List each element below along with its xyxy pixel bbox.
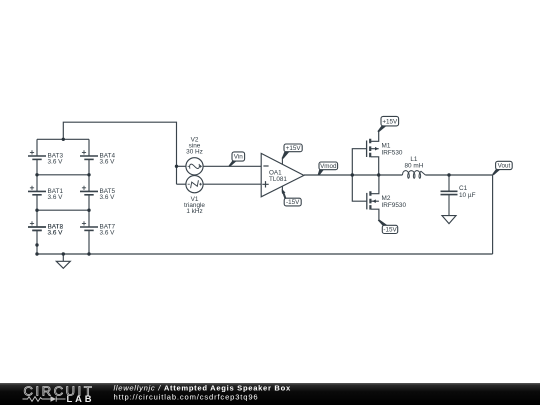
svg-text:Vmod: Vmod <box>320 163 337 170</box>
capacitor C1 10 uF <box>441 175 476 216</box>
op-amp +15V supply flag <box>282 144 303 165</box>
inductor L1 80 mH <box>402 156 425 178</box>
node top rail / feed junction <box>62 138 65 141</box>
node left column stub <box>35 243 38 246</box>
svg-text:3.6 V: 3.6 V <box>100 194 116 201</box>
node mid rail 1 left <box>35 173 38 176</box>
svg-text:3.6 V: 3.6 V <box>48 159 64 166</box>
ground symbol at C1 <box>442 216 456 224</box>
voltage source V1 triangle 1 kHz <box>184 176 205 215</box>
svg-text:10 µF: 10 µF <box>459 192 476 199</box>
wire ground stub at battery bank <box>62 254 64 261</box>
wire MOSFET gate bus vertical <box>352 149 367 202</box>
svg-text:C1: C1 <box>459 185 468 192</box>
battery BAT5 <box>80 186 115 201</box>
battery BAT1 <box>28 186 63 201</box>
wire feed from battery bank to sources <box>63 122 176 184</box>
MOSFET -15V supply flag <box>378 219 398 234</box>
svg-text:LAB: LAB <box>67 393 95 404</box>
ground symbol at battery bank <box>56 261 70 268</box>
svg-text:M1: M1 <box>382 143 391 150</box>
node mid rail 1 right <box>87 173 90 176</box>
svg-text:80 mH: 80 mH <box>404 162 423 169</box>
svg-text:-15V: -15V <box>286 199 300 206</box>
svg-text:1 kHz: 1 kHz <box>186 208 202 215</box>
svg-text:3.6 V: 3.6 V <box>100 159 116 166</box>
wire V1 left stub <box>177 183 186 185</box>
svg-text:TL081: TL081 <box>269 176 287 183</box>
svg-text:llewellynjc / Attempted Aegis: llewellynjc / Attempted Aegis Speaker Bo… <box>114 384 291 393</box>
wire V2 output to op-amp inverting input <box>203 165 261 167</box>
svg-text:3.6 V: 3.6 V <box>48 194 64 201</box>
wire V1 output to op-amp non-inverting input <box>203 183 261 185</box>
battery BAT8 (overlapping BAT2) <box>28 223 63 236</box>
wire V2 left stub <box>177 165 186 167</box>
junction dots <box>35 138 450 256</box>
node flag Vmod <box>318 162 338 175</box>
battery BAT7 <box>80 221 115 236</box>
wire inductor to output node <box>425 174 492 176</box>
svg-text:Vout: Vout <box>498 163 511 170</box>
node gate bus junction <box>351 173 354 176</box>
node MOSFET output junction <box>377 173 380 176</box>
svg-text:-15V: -15V <box>383 227 397 234</box>
node bottom rail ground <box>62 252 65 255</box>
wire right battery column <box>88 139 90 156</box>
node flag Vin <box>229 152 245 167</box>
svg-text:+15V: +15V <box>286 145 302 152</box>
node mid rail 2 right <box>87 209 90 212</box>
wire Vout feedback down and along bottom <box>492 175 494 254</box>
battery BAT3 <box>28 150 63 165</box>
node flag Vout <box>492 161 512 175</box>
wire op-amp output rail to MOSFET node <box>304 174 403 176</box>
footer logo resistor-diode squiggle <box>23 396 66 401</box>
op-amp OA1 TL081 <box>261 153 304 196</box>
svg-text:IRF530: IRF530 <box>382 150 403 157</box>
wire mid rail 2 <box>37 209 89 211</box>
svg-text:30 Hz: 30 Hz <box>186 148 203 155</box>
svg-text:3.6 V: 3.6 V <box>100 230 116 237</box>
svg-text:http://circuitlab.com/csdrfcep: http://circuitlab.com/csdrfcep3tq96 <box>114 393 259 402</box>
battery BAT4 <box>80 150 115 165</box>
wire mid rail 1 <box>37 174 89 176</box>
node mid rail 2 left <box>35 209 38 212</box>
op-amp -15V supply flag <box>282 186 302 206</box>
MOSFET +15V supply flag <box>377 116 398 132</box>
transistor M1 IRF530 (NMOS) <box>367 132 403 176</box>
node bottom rail right column <box>87 252 90 255</box>
wire bottom ground rail <box>37 253 493 255</box>
node bottom rail left <box>35 252 38 255</box>
svg-text:3.6 V: 3.6 V <box>48 230 64 237</box>
node C1 junction <box>447 173 450 176</box>
footer bar <box>0 383 540 405</box>
svg-text:+15V: +15V <box>382 119 398 126</box>
node source feed junction <box>175 165 178 168</box>
voltage source V2 sine 30 Hz <box>186 136 203 175</box>
battery BAT2 (overlapping BAT8) <box>28 221 63 236</box>
wire left battery column <box>36 139 38 156</box>
transistor M2 IRF9530 (PMOS) <box>367 175 407 220</box>
svg-text:Vin: Vin <box>234 154 243 161</box>
wire top rail of battery bank <box>37 138 89 140</box>
svg-text:IRF9530: IRF9530 <box>382 202 407 209</box>
